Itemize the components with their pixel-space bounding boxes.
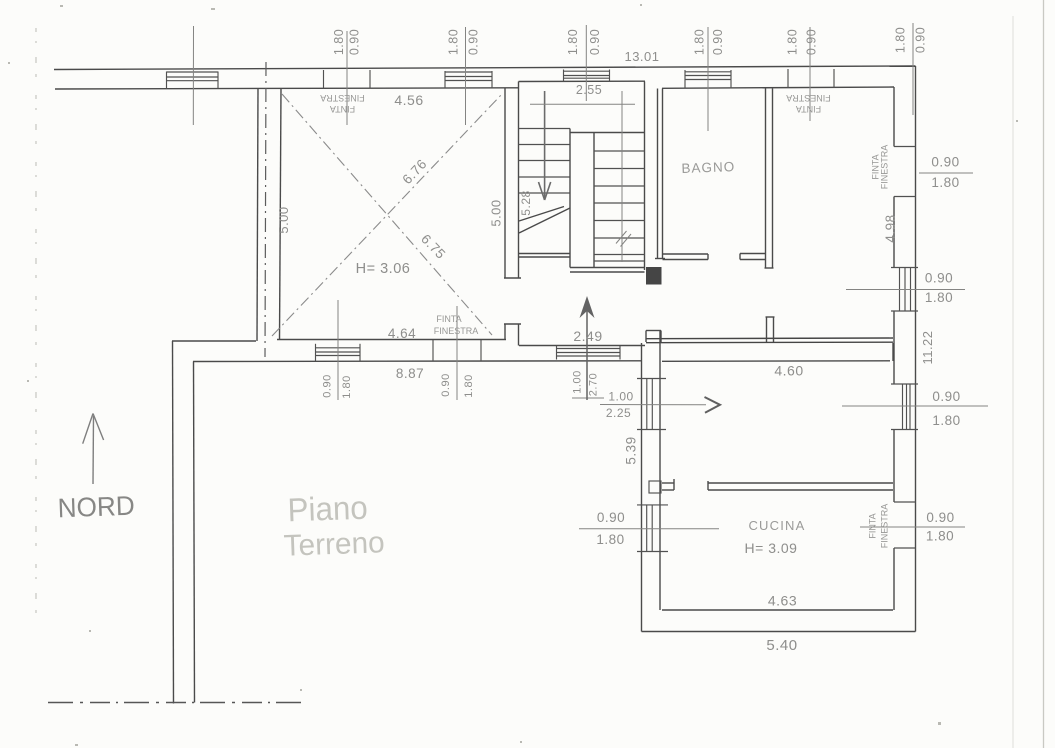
- stair long leader with break: [621, 91, 623, 262]
- fraction underline 1.00/2.70: [572, 397, 604, 399]
- wall stub below hall door: [646, 330, 661, 332]
- dimension line 2.55: [530, 103, 635, 105]
- stair left run treads: [519, 129, 571, 194]
- svg-text:8.87: 8.87: [396, 366, 424, 381]
- svg-text:0.90: 0.90: [597, 510, 625, 525]
- svg-text:1.80: 1.80: [894, 27, 908, 53]
- corner tick 4.60 room NE: [892, 343, 894, 361]
- wall: left room east wall inner face (door gap): [504, 88, 506, 278]
- window M3 (porta-finestra) in middle wall at hall: [557, 346, 621, 360]
- svg-text:5.40: 5.40: [766, 637, 797, 654]
- svg-text:1.80: 1.80: [596, 532, 624, 547]
- svg-text:1.80: 1.80: [931, 175, 959, 190]
- scan artifact: right outer border: [1043, 0, 1045, 748]
- leader line W4: [707, 27, 709, 131]
- leader line F1: [346, 31, 348, 125]
- svg-text:1.00: 1.00: [608, 390, 633, 404]
- dimension line west wall window D2: [579, 528, 719, 530]
- wall: east exterior inner face segments: [893, 87, 895, 147]
- stair bottom edge: [570, 267, 645, 269]
- svg-text:2.70: 2.70: [588, 373, 600, 396]
- shaft wall west of bagno: [657, 89, 659, 259]
- wall: top exterior, inner face left part: [55, 88, 519, 89]
- svg-text:4.63: 4.63: [768, 593, 797, 609]
- svg-text:0.90: 0.90: [931, 155, 959, 170]
- svg-text:0.90: 0.90: [467, 29, 481, 55]
- svg-text:11.22: 11.22: [920, 330, 935, 364]
- svg-text:0.90: 0.90: [440, 373, 452, 396]
- svg-text:FINTA: FINTA: [868, 513, 878, 538]
- wall: cucina south inner face: [662, 609, 893, 611]
- svg-text:CUCINA: CUCINA: [748, 518, 805, 533]
- svg-text:FINESTRA: FINESTRA: [880, 145, 890, 190]
- dimension line east wall window R3: [842, 405, 988, 407]
- svg-text:BAGNO: BAGNO: [681, 159, 735, 176]
- svg-text:0.90: 0.90: [348, 29, 362, 55]
- leader line M1: [337, 300, 339, 400]
- svg-text:FINTA: FINTA: [330, 104, 355, 114]
- svg-text:2.49: 2.49: [573, 328, 602, 344]
- wall: middle wall inner face (long): [193, 360, 642, 363]
- svg-text:1.80: 1.80: [332, 29, 346, 55]
- wall: lower-left wing west wall outer face: [173, 341, 174, 704]
- finta finestra M2 in middle wall (dividers): [433, 340, 481, 361]
- svg-text:0.90: 0.90: [322, 374, 334, 397]
- wall: lower-wing north wall inner face: [662, 360, 890, 363]
- svg-text:1.80: 1.80: [926, 529, 954, 544]
- svg-text:FINTA: FINTA: [796, 104, 821, 114]
- svg-text:0.90: 0.90: [932, 389, 960, 404]
- bagno south wall west segment: [663, 253, 709, 255]
- lower stub of bagno/NE-room wall: [766, 316, 775, 318]
- svg-text:0.90: 0.90: [926, 510, 954, 525]
- svg-text:1.80: 1.80: [932, 413, 960, 428]
- svg-text:1.80: 1.80: [786, 29, 800, 55]
- svg-text:4.60: 4.60: [774, 363, 803, 379]
- svg-text:H= 3.06: H= 3.06: [356, 261, 411, 277]
- leader line W2: [465, 27, 467, 125]
- svg-text:13.01: 13.01: [624, 49, 659, 64]
- svg-text:1.80: 1.80: [566, 29, 580, 55]
- window W4 (bagno) on top wall: [685, 70, 731, 89]
- wall: middle wall outer face under hall: [519, 345, 645, 347]
- svg-text:1.80: 1.80: [925, 290, 953, 305]
- window R3 on east wall: [891, 384, 918, 430]
- svg-text:1.80: 1.80: [447, 29, 461, 55]
- leader line window W1: [192, 26, 194, 125]
- window R2 on east wall: [891, 268, 918, 312]
- stair landing lower edge double line: [519, 253, 571, 255]
- svg-text:FINESTRA: FINESTRA: [786, 93, 831, 103]
- svg-text:0.90: 0.90: [805, 29, 819, 55]
- finta finestra F1 on top wall (dividers): [324, 70, 371, 89]
- centerline (dash-dot) of west wall: [265, 62, 266, 357]
- dark wall block hall east side: [646, 267, 662, 285]
- window W2 on top wall: [445, 71, 492, 88]
- svg-text:Terreno: Terreno: [283, 526, 385, 563]
- svg-text:0.90: 0.90: [588, 29, 602, 55]
- wall: cucina/wing south outer face: [642, 631, 916, 633]
- svg-text:Piano: Piano: [287, 489, 368, 529]
- svg-text:4.56: 4.56: [394, 92, 423, 108]
- bagno south wall east segment: [740, 253, 766, 255]
- stair cut diagonal lines: [519, 208, 570, 233]
- wall: stair block top inner face: [519, 80, 646, 82]
- window W3 above stairs: [564, 70, 610, 82]
- dimension line east wall finta R1: [919, 172, 973, 174]
- svg-text:4.64: 4.64: [388, 326, 416, 341]
- leader line F2: [809, 27, 811, 121]
- svg-text:0.90: 0.90: [711, 29, 725, 55]
- label FINTA FINESTRA upside down (top wall F2): [786, 93, 831, 114]
- window D2 on west wall (hatched): [637, 505, 668, 552]
- room diagonal (dash-dot) TL-BR: [282, 94, 492, 335]
- svg-text:NORD: NORD: [57, 491, 135, 524]
- svg-text:H= 3.09: H= 3.09: [745, 540, 798, 556]
- leader line top-right corner: [912, 23, 914, 115]
- finta finestra R4 on east wall (dividers): [894, 502, 916, 548]
- hall up arrow: [586, 305, 588, 400]
- stair down arrow: [539, 91, 551, 200]
- svg-text:1.00: 1.00: [572, 370, 584, 393]
- scan artifact: right inner faint border: [1012, 16, 1014, 748]
- finta finestra F2 on top wall (dividers): [788, 69, 834, 88]
- dimension line east wall finta R4: [860, 526, 965, 528]
- property dash-dot line bottom: [48, 702, 303, 704]
- wall: lower-left wing west wall inner face: [194, 362, 195, 703]
- svg-text:1.80: 1.80: [341, 375, 353, 398]
- scan artifact: left noise band: [35, 28, 37, 620]
- north arrow: [83, 414, 104, 485]
- room diagonal (dash-dot) BL-TR: [272, 94, 502, 336]
- stair right run treads: [594, 151, 645, 261]
- stair east wall: [644, 82, 646, 271]
- dimension line east wall window R2: [846, 289, 965, 291]
- stair stringer right edge: [593, 133, 595, 268]
- wall: middle wall outer face under left room: [277, 339, 506, 341]
- label FINTA FINESTRA upside down (top wall F1): [320, 93, 365, 114]
- svg-text:5.00: 5.00: [276, 206, 291, 233]
- svg-text:FINESTRA: FINESTRA: [434, 326, 479, 336]
- wall: east exterior outer face: [915, 66, 917, 632]
- stair landing top edge: [570, 132, 645, 134]
- wall: lower wing west wall outer face: [641, 343, 643, 632]
- wall: 4.60 room south / cucina north, west stub: [662, 482, 674, 484]
- wall: left room west wall outer face: [257, 89, 258, 342]
- wall: stair west wall (hall side of same wall): [518, 82, 520, 279]
- svg-text:2.55: 2.55: [576, 83, 602, 97]
- svg-text:2.25: 2.25: [606, 406, 631, 420]
- wall: left room west wall inner face: [280, 89, 282, 340]
- svg-text:FINESTRA: FINESTRA: [320, 93, 365, 103]
- wall: 4.60 room south / cucina north, main: [708, 482, 893, 484]
- wall: top exterior, inner face right part: [662, 87, 894, 88]
- leader line W3: [585, 25, 587, 101]
- svg-text:5.28: 5.28: [519, 190, 533, 215]
- window W1 on top wall: [167, 72, 219, 89]
- svg-text:FINESTRA: FINESTRA: [880, 504, 890, 549]
- svg-text:5.00: 5.00: [489, 199, 504, 226]
- wall between bagno and NE room: [765, 89, 767, 269]
- entrance door D1 on west wall (hatched): [637, 379, 666, 430]
- wall: corridor south wall of top-right rooms (double dark): [646, 337, 893, 340]
- svg-text:0.90: 0.90: [914, 27, 928, 53]
- entrance direction arrow: [600, 404, 706, 406]
- svg-text:4.98: 4.98: [883, 214, 898, 242]
- svg-text:5.39: 5.39: [624, 436, 639, 464]
- jamb box at west wall / kitchen wall junction: [649, 481, 661, 493]
- svg-text:1.80: 1.80: [463, 374, 475, 397]
- window M1 in middle wall: [316, 344, 361, 361]
- finta finestra R1 on east wall (dividers): [894, 147, 916, 197]
- wall: lower wing west wall inner face: [659, 331, 661, 611]
- svg-text:FINTA: FINTA: [436, 314, 461, 324]
- wall: top exterior, outer face: [54, 66, 916, 70]
- wall: middle wall outer face, left segment to lower wing: [172, 340, 256, 342]
- leader line M2: [456, 306, 458, 400]
- stair stringer left edge: [569, 129, 571, 268]
- door jamb ticks left room east wall: [504, 277, 521, 279]
- svg-text:1.80: 1.80: [693, 29, 707, 55]
- svg-text:0.90: 0.90: [925, 271, 953, 286]
